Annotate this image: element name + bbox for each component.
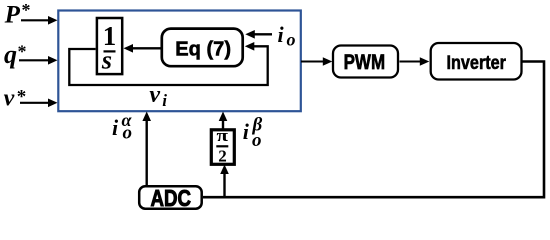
wire P* input arrow [21, 16, 58, 25]
svg-text:2: 2 [218, 147, 227, 166]
svg-text:*: * [22, 0, 31, 20]
svg-text:PWM: PWM [344, 51, 386, 74]
label v* [4, 86, 27, 112]
svg-text:i: i [278, 22, 285, 47]
wire Inverter output down and along bottom to ADC [203, 62, 544, 198]
svg-text:o: o [123, 123, 133, 144]
wire controller output to PWM [301, 57, 332, 66]
wire feedback loop (1/s out, around bottom, into Eq(7)) [69, 42, 267, 85]
svg-text:*: * [17, 86, 27, 107]
svg-text:Eq (7): Eq (7) [175, 39, 231, 61]
controller outer box (blue) [58, 11, 300, 112]
wire bottom to pi/2 block arrow [220, 165, 229, 198]
integrator block 1/s [97, 18, 122, 75]
svg-text:o: o [252, 130, 262, 151]
wire pi/2 to controller arrow (i_o beta) [219, 112, 228, 130]
wire v* input arrow [20, 99, 58, 108]
svg-text:ADC: ADC [151, 185, 192, 211]
block pi/2 [211, 126, 234, 166]
svg-text:v: v [149, 82, 160, 108]
svg-text:P: P [4, 1, 21, 28]
svg-text:q: q [4, 40, 17, 69]
svg-text:i: i [243, 119, 250, 144]
wire Eq(7) to 1/s arrow [124, 44, 161, 53]
svg-text:v: v [4, 86, 15, 112]
svg-text:s: s [101, 46, 112, 75]
label P* [4, 0, 31, 28]
block Inverter [431, 43, 522, 80]
svg-text:o: o [287, 30, 296, 50]
svg-text:i: i [162, 91, 167, 110]
label i_o^alpha [112, 110, 133, 144]
label i_o [278, 22, 296, 50]
wire ADC to controller arrow (i_o alpha) [142, 112, 151, 187]
block PWM [333, 46, 398, 78]
label i_o^beta [243, 115, 263, 152]
wire i_o input arrow into Eq(7) [245, 30, 272, 39]
wire PWM to Inverter [400, 57, 430, 66]
block Eq (7) [162, 29, 243, 67]
svg-text:i: i [112, 115, 119, 140]
svg-text:*: * [18, 42, 27, 62]
wire q* input arrow [19, 56, 58, 65]
label q* [4, 40, 27, 69]
block ADC [139, 185, 202, 211]
svg-text:Inverter: Inverter [447, 53, 507, 74]
label v_i [149, 82, 167, 110]
